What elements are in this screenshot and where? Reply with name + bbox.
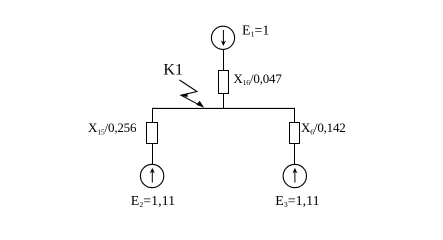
- fault arrow K1 (lightning): [180, 80, 205, 108]
- wire bus to X6: [294, 108, 296, 123]
- svg-text:X15/0,256: X15/0,256: [88, 120, 137, 136]
- svg-text:X6/0,142: X6/0,142: [301, 120, 346, 136]
- source E2: [140, 164, 163, 187]
- wire X15 to E2: [152, 144, 154, 165]
- svg-text:E3=1,11: E3=1,11: [275, 194, 319, 209]
- reactance X15: [147, 123, 158, 144]
- source E3: [283, 164, 306, 187]
- wire bus to X15: [152, 108, 154, 123]
- reactance X6: [290, 123, 300, 144]
- reactance X16: [219, 71, 229, 94]
- svg-text:E1=1: E1=1: [242, 24, 269, 39]
- wire X6 to E3: [294, 144, 296, 165]
- bus (node K1): [152, 107, 295, 109]
- wire X16 to bus: [223, 94, 225, 109]
- source E1 (system): [211, 26, 234, 49]
- svg-text:E2=1,11: E2=1,11: [131, 194, 175, 209]
- svg-text:K1: K1: [163, 61, 183, 78]
- wire E1 to X16: [223, 49, 225, 70]
- svg-text:X16/0,047: X16/0,047: [233, 71, 282, 87]
